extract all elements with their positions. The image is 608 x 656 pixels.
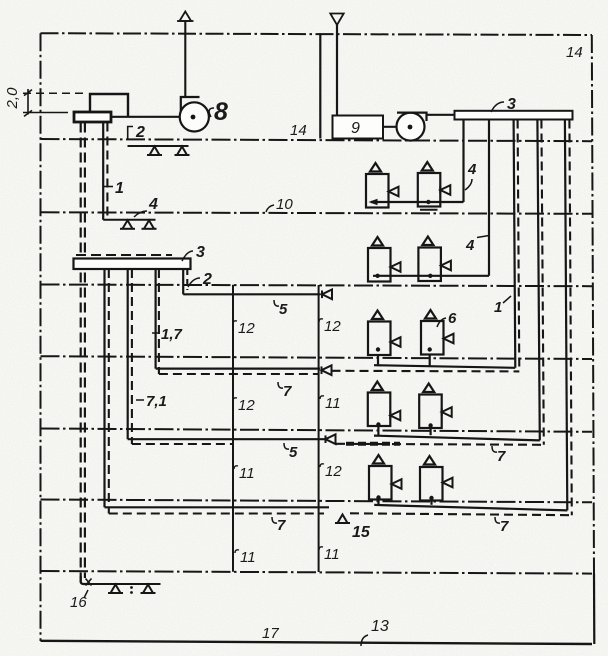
svg-text:10: 10 — [276, 196, 293, 213]
stub row3 B — [429, 355, 431, 366]
interior wall left — [232, 285, 234, 572]
heater row5 A — [369, 455, 392, 500]
valve floor5 — [326, 434, 336, 444]
dimension line — [27, 89, 29, 115]
riser 1 return — [106, 123, 108, 217]
leader for 6 — [437, 318, 446, 327]
leader for 7 floor4 left — [278, 382, 283, 388]
roof vent triangle left — [180, 12, 192, 22]
branch vent 2 — [142, 220, 157, 229]
row 1 pipe — [371, 201, 464, 203]
interior wall right — [318, 285, 320, 572]
floor line 5 — [41, 429, 593, 432]
svg-text:7,1: 7,1 — [146, 393, 167, 410]
label 1 tick — [104, 186, 113, 188]
valve row1 B — [440, 185, 450, 195]
branch 4 vent line — [103, 219, 155, 221]
leader for 13 — [361, 635, 368, 646]
svg-text:11: 11 — [239, 465, 255, 482]
leader for 5 floor5 — [284, 443, 289, 449]
svg-text:3: 3 — [507, 96, 516, 113]
svg-text:14: 14 — [566, 44, 583, 61]
svg-text:1: 1 — [115, 180, 124, 197]
fan unit scroll — [397, 113, 427, 121]
junction dot row3 A — [376, 347, 380, 351]
heater row1 A — [366, 163, 389, 208]
riser P2 supply — [127, 269, 129, 439]
riser 1 supply — [102, 123, 104, 220]
ceiling vent 2 — [175, 147, 190, 156]
svg-text:1,7: 1,7 — [161, 326, 183, 343]
junction dot row4 B — [428, 423, 432, 427]
riser pair 16 supply (long left riser) — [80, 123, 82, 584]
junction dot row1 — [426, 200, 430, 204]
riser P4 supply — [182, 269, 184, 294]
leader for 3 left — [182, 251, 193, 261]
tick 12 f4 left — [233, 398, 237, 401]
riser to row 4 supply — [537, 120, 539, 441]
building outline left wall — [40, 33, 42, 641]
vent 15 — [335, 515, 350, 524]
floor4 pipe return left — [159, 373, 319, 375]
stub row3 A — [377, 355, 379, 366]
fan 8 scroll — [181, 97, 200, 111]
bottom branch valve cross — [86, 579, 92, 586]
svg-text:5: 5 — [279, 301, 288, 318]
bottom vent colon dot upper — [130, 586, 133, 589]
floor5 pipe return left — [132, 443, 233, 445]
riser P3 supply — [155, 269, 157, 369]
row 3 pipe return — [332, 370, 520, 373]
row 3 pipe supply — [374, 365, 515, 368]
branch vent 1 — [120, 220, 135, 229]
heater row5 B — [420, 456, 443, 501]
svg-text:12: 12 — [238, 320, 255, 337]
wire platform to fan 8 — [112, 116, 180, 118]
floor line 4 — [41, 356, 593, 359]
heater row2 B — [418, 237, 441, 282]
riser to row 4 return — [541, 120, 543, 445]
heater row1 B — [418, 162, 441, 207]
valve floor3 — [322, 290, 332, 300]
ceiling vent line under fan — [128, 145, 189, 147]
bottom vent line — [90, 583, 161, 585]
building outline top — [41, 33, 593, 35]
floor line 1 — [41, 139, 593, 141]
tick 12 f3 right — [319, 319, 323, 322]
svg-text:9: 9 — [351, 120, 360, 137]
fan 8 hub — [191, 115, 196, 120]
heater row3 A — [368, 311, 391, 356]
svg-text:15: 15 — [352, 524, 371, 541]
svg-text:7: 7 — [497, 448, 506, 465]
svg-text:6: 6 — [448, 310, 457, 327]
floor5 pipe supply left — [128, 438, 325, 440]
valve row3 A — [391, 337, 401, 347]
row 4 pipe supply — [374, 436, 540, 441]
riser to row 1 — [462, 120, 464, 203]
valve row3 B — [444, 334, 454, 344]
svg-text:12: 12 — [324, 318, 341, 335]
leader for 7 floor6 left — [272, 517, 277, 523]
tick 11 f5 left — [234, 466, 238, 469]
dimension extension line lower — [23, 112, 68, 114]
header 3 right — [455, 111, 573, 120]
leader for 8 — [209, 108, 214, 117]
junction dot row2 A — [375, 274, 379, 278]
leader for 2 floor3 — [188, 278, 200, 287]
tick 12 f5 right — [320, 464, 324, 467]
row 5 pipe supply — [374, 505, 567, 511]
label 2 bracket first floor — [128, 127, 133, 141]
leader for 4 row 1 — [465, 179, 472, 190]
riser P3 return — [158, 269, 160, 374]
building outline bottom — [41, 641, 593, 644]
valve row5 B — [443, 478, 453, 488]
junction dot row3 B — [428, 347, 432, 351]
header 3 left — [74, 259, 191, 270]
ceiling vent 1 — [147, 147, 162, 156]
heater row2 A — [368, 237, 391, 282]
row 4 pipe return — [336, 444, 544, 445]
stub row5 B — [430, 501, 432, 505]
fan 8 body — [180, 102, 209, 131]
svg-text:11: 11 — [325, 395, 341, 412]
building outline right wall — [592, 35, 594, 573]
riser to row 5 return — [569, 120, 571, 516]
svg-text:17: 17 — [262, 625, 279, 642]
leader for 4 row 2 — [477, 236, 489, 238]
tick 12 f3 left — [233, 321, 237, 324]
dimension tick top — [24, 90, 32, 96]
valve row2 B — [441, 261, 451, 271]
air unit box 9 — [333, 116, 384, 139]
svg-text:2: 2 — [135, 124, 145, 141]
intake shaft right line — [336, 25, 338, 116]
wire fan to header 3 — [427, 114, 456, 116]
bottom vent 2 — [141, 585, 156, 594]
junction dot row5 B — [429, 496, 433, 500]
valve row4 B — [442, 407, 452, 417]
leader for 7,1 — [136, 399, 144, 401]
svg-text:13: 13 — [371, 618, 389, 635]
fan unit hub — [408, 125, 413, 130]
leader for 4 left — [134, 211, 147, 217]
row 1 pipe arrow — [369, 199, 378, 205]
leader for 16 — [84, 590, 88, 598]
floor line 7 — [41, 571, 593, 574]
heater row1 B pedestal — [420, 209, 438, 211]
riser to row 3 supply — [514, 120, 516, 368]
intake shaft left line — [319, 33, 321, 138]
riser P1 supply — [103, 269, 105, 507]
riser P2 return — [131, 269, 133, 444]
heater row3 B — [421, 310, 444, 355]
svg-text:7: 7 — [283, 383, 292, 400]
svg-text:4: 4 — [465, 237, 475, 254]
bottom branch turn — [81, 576, 90, 584]
valve row5 A — [392, 479, 402, 489]
leader for 1,7 — [152, 332, 159, 334]
pipe 15 return — [109, 512, 324, 514]
junction dot row2 B — [428, 274, 432, 278]
row 4 return heavy dashes — [346, 442, 400, 446]
leader for 7 row 4 — [492, 446, 497, 452]
roof box on platform — [90, 94, 128, 117]
pipe 15 supply — [105, 506, 330, 508]
leader for 3 right — [491, 102, 504, 112]
svg-text:14: 14 — [290, 122, 307, 139]
riser to row 5 supply — [565, 120, 567, 511]
fan unit body — [397, 113, 425, 141]
floor4 pipe supply left — [156, 368, 320, 370]
tick 11 f6 right — [319, 547, 323, 550]
valve floor4 — [322, 365, 332, 375]
svg-text:1: 1 — [494, 299, 502, 316]
svg-text:12: 12 — [325, 463, 342, 480]
svg-text:12: 12 — [238, 397, 255, 414]
svg-text:8: 8 — [214, 98, 228, 126]
dimension tick bottom — [24, 110, 32, 116]
svg-text:2,0: 2,0 — [4, 87, 21, 110]
stub row4 B — [430, 428, 432, 435]
header 3 left dashed top line — [76, 254, 172, 256]
svg-text:7: 7 — [277, 517, 286, 534]
leader for 10 — [266, 205, 274, 212]
svg-text:3: 3 — [196, 244, 205, 261]
riser to row 3 return — [518, 120, 520, 372]
bottom vent 1 — [108, 585, 123, 594]
svg-text:11: 11 — [324, 546, 340, 563]
svg-text:4: 4 — [467, 161, 477, 178]
tick 11 f6 left — [235, 550, 239, 553]
roof vent base line left — [177, 20, 194, 22]
leader for 5 floor3 — [274, 300, 279, 306]
svg-text:7: 7 — [500, 518, 509, 535]
tick 11 f4 right — [320, 396, 324, 399]
floor3 pipe supply — [183, 293, 320, 295]
floor line 6 — [41, 500, 593, 503]
valve row4 A — [390, 411, 400, 421]
valve row2 A — [391, 262, 401, 272]
bottom vent colon dot lower — [130, 591, 133, 594]
floor line 3 — [41, 285, 593, 287]
intake vent triangle — [330, 14, 343, 26]
heater row4 A — [368, 382, 391, 427]
stub row4 A — [377, 426, 379, 435]
svg-text:11: 11 — [240, 549, 256, 566]
platform (air handler) — [74, 112, 111, 122]
junction dot row5 A — [376, 495, 380, 499]
junction dot row4 A — [376, 422, 380, 426]
svg-text:4: 4 — [148, 196, 158, 213]
stub row5 A — [377, 500, 379, 505]
riser P4 return — [186, 269, 188, 290]
leader for 7 row 5 — [495, 517, 500, 523]
riser to row 2 — [488, 120, 490, 276]
leader for 1 row 3 — [503, 296, 511, 303]
row 5 pipe return — [350, 513, 572, 515]
riser P1 return — [108, 269, 110, 514]
valve row1 A — [389, 187, 399, 197]
heater row4 B — [419, 384, 442, 429]
dimension extension line upper — [23, 92, 88, 94]
svg-text:5: 5 — [289, 444, 298, 461]
riser pair 16 return — [84, 123, 86, 579]
wire box 9 to fan — [383, 126, 397, 128]
right wall lower solid segment — [593, 573, 595, 644]
floor line 2 — [41, 212, 593, 214]
svg-text:2: 2 — [202, 271, 212, 288]
row 2 pipe — [373, 275, 489, 277]
exhaust duct from fan 8 — [184, 21, 186, 97]
